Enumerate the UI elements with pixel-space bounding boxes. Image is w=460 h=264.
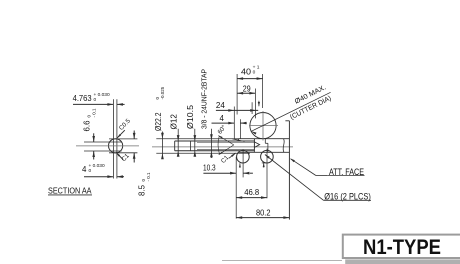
svg-text:24: 24 — [216, 101, 226, 110]
dimension 80.2 — [236, 208, 289, 219]
cutter diameter circle (Ø40 max, phantom) — [250, 113, 276, 139]
chamfer label C0.5 with leader (section top-right) — [117, 117, 132, 138]
section AA shaft cross-section circle — [109, 139, 123, 153]
cutter circle vertical centerline — [262, 111, 264, 141]
dimension line for Ø22.2 — [161, 132, 164, 160]
main view horizontal centerline of spindle — [152, 146, 293, 148]
svg-text:4.763: 4.763 — [73, 94, 93, 103]
svg-text:0: 0 — [89, 168, 92, 174]
nose ring step edge — [237, 139, 239, 141]
dimension line for Ø12 — [177, 129, 180, 157]
dimension line for tapped hole 3/8-24UNF — [210, 129, 213, 158]
main view thin extension line, top of Ø22.2 — [156, 138, 238, 140]
svg-text:N1-TYPE: N1-TYPE — [363, 235, 441, 259]
nose taper line — [232, 139, 244, 142]
svg-text:6.6: 6.6 — [83, 120, 92, 132]
dimension 24 — [216, 101, 258, 112]
svg-text:46.8: 46.8 — [244, 188, 260, 197]
section AA left flat (vertical chord / extension line) — [112, 99, 114, 178]
chamfer label C1 with leader (section bottom) — [116, 152, 131, 163]
svg-text:SECTION AA: SECTION AA — [48, 185, 92, 195]
faint table grid line — [222, 260, 342, 262]
body bottom edge — [238, 151, 289, 153]
chamfer label C1 with leader (main view) — [220, 153, 236, 165]
svg-text:- 0.1: - 0.1 — [92, 108, 97, 118]
section AA top tangent extension line for 8.5 dim — [109, 138, 137, 140]
svg-text:3/8 - 24UNF-2BTAP: 3/8 - 24UNF-2BTAP — [200, 69, 209, 129]
svg-text:0: 0 — [253, 70, 256, 76]
cutter circle horizontal centerline — [249, 125, 278, 127]
dimension 29 — [237, 85, 255, 95]
dimension 10.3 — [203, 164, 253, 175]
label Ø10.5 (rotated) — [186, 104, 195, 129]
svg-text:+ 1: + 1 — [253, 65, 260, 71]
spindle tapped-hole bottom hidden line — [197, 148, 254, 150]
svg-text:+ 0.030: + 0.030 — [94, 92, 110, 98]
dimension line for Ø10.5 — [194, 129, 197, 157]
nose ring top edge and body top edge — [238, 138, 289, 140]
svg-text:40: 40 — [241, 67, 252, 76]
small down-arrow at x=258.9 — [258, 101, 260, 106]
gray strip below title box — [345, 259, 460, 264]
note Ø16 (2 PLCS) with leader — [265, 155, 371, 202]
label Ø22.2 0/-0.025 (rotated) — [154, 86, 165, 131]
svg-text:- 0.1: - 0.1 — [146, 172, 151, 182]
section AA bottom tangent extension line for 8.5 dim — [109, 152, 137, 154]
section view title SECTION AA — [48, 185, 92, 195]
N1-TYPE title box — [343, 235, 460, 259]
extension line x=236.2 (shared by 10.3/46.8/80.2) — [235, 157, 237, 219]
note Ø40 MAX (CUTTER DIA) with leader — [251, 84, 332, 134]
extension line x=234.3 — [233, 107, 235, 139]
svg-text:Ø22.2: Ø22.2 — [154, 113, 163, 132]
nose center cone tip — [254, 142, 259, 148]
dimension 8.5 0/-0.1 (vertical, lower right of section) — [133, 131, 151, 197]
extension line right for 29 — [254, 89, 256, 119]
dimension 6.6 0/-0.1 (vertical, left of section) — [83, 108, 97, 160]
main view thin extension line, bottom of Ø22.2 — [156, 152, 250, 154]
svg-text:Ø10.5: Ø10.5 — [186, 104, 195, 129]
section AA right flat (vertical chord / extension line) — [116, 99, 118, 178]
angle dimension 60 degrees — [216, 124, 233, 155]
svg-text:4: 4 — [220, 114, 225, 123]
tiny up-arrow under hole 2 — [262, 163, 266, 168]
svg-text:0: 0 — [94, 97, 97, 103]
svg-text:10.3: 10.3 — [203, 164, 216, 173]
mounting hole circle 2 (Ø16) — [261, 150, 274, 163]
mounting hole circle 1 (Ø16) — [237, 150, 250, 163]
extension line left for 40/29 — [236, 74, 238, 115]
svg-text:+ 0.030: + 0.030 — [89, 163, 105, 169]
svg-text:8.5: 8.5 — [137, 184, 146, 196]
dimension 4 +0.030/0 (bottom width across flats) — [82, 163, 124, 178]
spindle shaft bottom outline — [175, 150, 255, 152]
spindle shaft top outline — [175, 140, 255, 142]
spindle tapped-hole top hidden line — [197, 141, 254, 143]
label Ø12 (rotated) — [169, 114, 178, 130]
svg-text:Ø12: Ø12 — [169, 114, 178, 130]
extension line right for 40 — [262, 74, 264, 108]
svg-text:80.2: 80.2 — [256, 208, 271, 217]
section AA lower horizontal chord / extension line for 6.6 dim — [84, 150, 122, 152]
tiny up-arrow under hole 1 — [239, 163, 241, 167]
shaft mid step edge — [190, 141, 192, 151]
label 3/8 - 24UNF-2BTAP (rotated) — [200, 69, 209, 129]
svg-text:-0.025: -0.025 — [160, 86, 165, 99]
attachment face vertical line — [288, 121, 290, 220]
body inner step contour near hole 2 — [265, 139, 268, 152]
svg-text:Ø16 (2 PLCS): Ø16 (2 PLCS) — [324, 190, 371, 201]
shaft left step edge — [174, 141, 176, 151]
dimension 40 +1/0 (top) — [237, 65, 263, 80]
dimension 4.763 +0.030/0 (width across flats, top) — [73, 92, 125, 106]
hole 2 vertical centerline / 46.8 extension — [266, 149, 268, 199]
note ATT. FACE with leader — [290, 158, 365, 176]
extension line x=252 (nose) — [251, 102, 253, 114]
svg-text:4: 4 — [82, 165, 87, 174]
hole 1 vertical centerline / 10.3 extension — [242, 150, 244, 178]
dimension 4 (thread relief) — [212, 114, 247, 124]
extension line x=240.4 — [239, 119, 241, 139]
attachment face top tick — [285, 120, 289, 122]
body break line (wavy) — [283, 139, 284, 152]
spindle nose face — [253, 139, 255, 152]
section AA horizontal centerline — [76, 145, 139, 147]
section AA upper horizontal chord / extension line for 6.6 dim — [84, 141, 122, 143]
dimension 46.8 — [236, 188, 267, 199]
